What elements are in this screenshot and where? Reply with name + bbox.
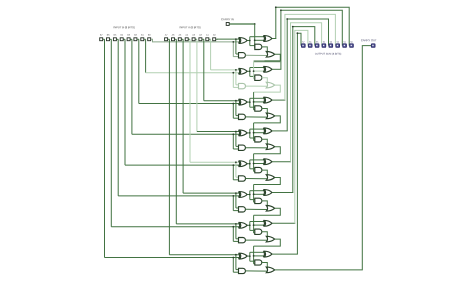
wire A7 vertical bbox=[168, 38, 170, 40]
wire A4 vertical bbox=[189, 38, 191, 40]
xor gate XOR1 cell1 bbox=[240, 38, 248, 44]
wire B2 vertical bbox=[137, 38, 139, 40]
input pin A2 bbox=[199, 38, 202, 41]
wire B4 vertical bbox=[124, 38, 126, 40]
wire A4 horizontal bbox=[190, 161, 239, 163]
wire A1 horizontal bbox=[211, 69, 240, 71]
wire sum S7 nest bbox=[272, 253, 298, 255]
wire AND2-OR cell7 bbox=[246, 239, 268, 241]
input pin B6 bbox=[107, 38, 110, 41]
wire A6 horizontal bbox=[176, 223, 239, 225]
wire XOR1 fanout cell4 bbox=[248, 132, 250, 134]
wire carry cell7-cell8 bbox=[254, 239, 281, 246]
xor gate XOR1 cell4 bbox=[240, 130, 248, 136]
wire B2 horizontal bbox=[139, 103, 239, 105]
wire AND2-OR cell4 bbox=[246, 147, 268, 149]
xor gate XOR2 cell5 bbox=[264, 159, 272, 165]
input pin B7 bbox=[100, 38, 103, 41]
wire AND1-OR cell2 bbox=[262, 78, 268, 84]
wire A tap cell6 bbox=[235, 193, 237, 208]
and gate AND1 cell3 bbox=[255, 106, 262, 111]
wire B5 vertical bbox=[117, 38, 119, 40]
xor gate XOR1 cell3 bbox=[240, 99, 248, 105]
input pin A7 bbox=[165, 38, 168, 41]
or gate OR1 cell4 bbox=[266, 144, 274, 150]
wire carry cell3-cell4 bbox=[254, 116, 281, 123]
wire B tap cell8 bbox=[232, 258, 234, 273]
wire sum S1 nest bbox=[272, 68, 281, 70]
xor gate XOR1 cell8 bbox=[240, 253, 248, 259]
wire A2 horizontal bbox=[204, 100, 239, 102]
xor gate XOR2 cell8 bbox=[264, 251, 272, 257]
wire AND2-OR cell8 bbox=[246, 270, 268, 272]
output pin S3 bbox=[329, 44, 333, 47]
wire sum S6 nest bbox=[272, 222, 295, 224]
and gate AND1 cell7 bbox=[255, 229, 262, 234]
label carry in bbox=[221, 18, 233, 20]
wire A3 horizontal bbox=[197, 131, 239, 133]
wire XOR1 fanout cell8 bbox=[248, 255, 250, 257]
wire AND1-OR cell6 bbox=[262, 201, 268, 207]
wire sum S5 nest bbox=[272, 192, 293, 194]
wire A5 horizontal bbox=[183, 192, 239, 194]
and gate AND1 cell2 bbox=[255, 75, 262, 80]
and gate AND2 cell8 bbox=[239, 268, 246, 273]
wire carry-in cell5 bbox=[253, 154, 255, 172]
wire A tap cell7 bbox=[235, 224, 237, 239]
input pin B3 bbox=[127, 38, 130, 41]
input pin B0 bbox=[148, 38, 151, 41]
wire carry-in cell4 bbox=[253, 123, 255, 141]
wire carry cell5-cell6 bbox=[254, 178, 281, 185]
wire carry cell4-cell5 bbox=[254, 147, 281, 154]
wire B tap cell6 bbox=[232, 196, 234, 211]
wire A2 vertical bbox=[202, 38, 204, 40]
and gate AND1 cell8 bbox=[255, 260, 262, 265]
wire B tap cell4 bbox=[232, 134, 234, 149]
output pin S7 bbox=[302, 44, 306, 47]
wire A tap cell5 bbox=[235, 162, 237, 177]
wire carry cell6-cell7 bbox=[254, 208, 281, 215]
wire carry-in cell8 bbox=[253, 246, 255, 264]
or gate OR1 cell2 bbox=[266, 82, 274, 88]
input pin B1 bbox=[141, 38, 144, 41]
wire A tap cell2 bbox=[235, 70, 237, 85]
input pin A6 bbox=[172, 38, 175, 41]
wire B tap cell1 bbox=[232, 42, 234, 57]
wire CIN bbox=[229, 23, 254, 25]
wire sum S4 nest bbox=[272, 161, 291, 163]
wire B5 horizontal bbox=[118, 195, 239, 197]
wire B7 horizontal bbox=[105, 257, 240, 259]
and gate AND2 cell3 bbox=[239, 114, 246, 119]
wire carry-in cell1 bbox=[254, 24, 256, 48]
xor gate XOR2 cell4 bbox=[264, 128, 272, 134]
label output sum bbox=[315, 53, 341, 55]
wire XOR1 fanout cell2 bbox=[248, 70, 250, 72]
wire AND1-OR cell1 bbox=[262, 47, 268, 53]
wire XOR1 fanout cell6 bbox=[248, 194, 250, 196]
wire AND1-OR cell3 bbox=[262, 109, 268, 115]
wire B0 to cell1 bbox=[151, 39, 239, 42]
xor gate XOR1 cell2 bbox=[240, 68, 248, 74]
or gate OR1 cell3 bbox=[266, 113, 274, 119]
xor gate XOR1 cell7 bbox=[240, 222, 248, 228]
output pin S0 bbox=[350, 44, 354, 47]
or gate OR1 cell8 bbox=[266, 267, 274, 273]
wire carry cell1-cell2 bbox=[275, 54, 281, 61]
wire carry-in cell6 bbox=[253, 185, 255, 203]
label input group B bbox=[114, 26, 135, 29]
output pin S6 bbox=[308, 44, 312, 47]
and gate AND1 cell4 bbox=[255, 137, 262, 142]
wire AND2-OR cell3 bbox=[246, 116, 268, 118]
output pin S1 bbox=[343, 44, 347, 47]
wire B1 vertical bbox=[144, 38, 146, 40]
wire AND1-OR cell4 bbox=[262, 139, 268, 145]
wire B3 vertical bbox=[130, 38, 132, 40]
wire carry out bbox=[275, 46, 371, 270]
output pin S2 bbox=[336, 44, 340, 47]
wire AND2-OR cell5 bbox=[246, 178, 268, 180]
wire sum S0 nest bbox=[272, 38, 276, 40]
wire B tap cell3 bbox=[232, 104, 234, 119]
and gate AND2 cell1 bbox=[239, 53, 246, 58]
wire A tap cell3 bbox=[235, 101, 237, 116]
input pin A4 bbox=[185, 38, 188, 41]
and gate AND2 cell5 bbox=[239, 176, 246, 181]
wire carry-in cell2 bbox=[253, 61, 255, 79]
wire A3 vertical bbox=[195, 38, 197, 40]
wire A6 vertical bbox=[175, 38, 177, 40]
input pin A3 bbox=[192, 38, 195, 41]
wire B tap cell5 bbox=[232, 165, 234, 180]
and gate AND2 cell4 bbox=[239, 145, 246, 150]
output pin S4 bbox=[322, 44, 326, 47]
input pin CIN bbox=[226, 23, 229, 26]
and gate AND1 cell1 bbox=[255, 44, 262, 49]
wire AND1-OR cell7 bbox=[262, 232, 268, 238]
wire B tap cell2 bbox=[232, 73, 234, 88]
wire B7 vertical bbox=[103, 38, 105, 40]
wire B4 horizontal bbox=[125, 164, 239, 166]
and gate AND2 cell6 bbox=[239, 207, 246, 212]
wire XOR1 fanout cell1 bbox=[248, 40, 250, 42]
or gate OR1 cell5 bbox=[266, 175, 274, 181]
wire XOR1 fanout cell5 bbox=[248, 163, 250, 165]
wire B6 vertical bbox=[110, 38, 112, 40]
xor gate XOR1 cell5 bbox=[240, 161, 248, 167]
xor gate XOR1 cell6 bbox=[240, 192, 248, 198]
xor gate XOR2 cell6 bbox=[264, 190, 272, 196]
wire A tap cell1 bbox=[235, 39, 237, 54]
wire B6 horizontal bbox=[111, 226, 239, 228]
wire carry-in cell7 bbox=[253, 215, 255, 233]
wire AND2-OR cell6 bbox=[246, 208, 268, 210]
output pin COUT bbox=[371, 44, 375, 47]
label carry out bbox=[361, 39, 377, 41]
wire A tap cell8 bbox=[235, 255, 237, 270]
xor gate XOR2 cell7 bbox=[264, 220, 272, 226]
or gate OR1 cell7 bbox=[266, 236, 274, 242]
wire sum S3 nest bbox=[272, 130, 288, 132]
wire A7 horizontal bbox=[169, 254, 239, 256]
input pin B4 bbox=[120, 38, 123, 41]
wire AND1-OR cell8 bbox=[262, 263, 268, 269]
wire A tap cell4 bbox=[235, 132, 237, 147]
label input group A bbox=[180, 26, 201, 29]
wire A0 to cell1 bbox=[216, 38, 239, 40]
output pin S5 bbox=[315, 44, 319, 47]
wire A1 vertical bbox=[209, 38, 211, 40]
input pin A1 bbox=[206, 38, 209, 41]
wire XOR1 fanout cell7 bbox=[248, 224, 250, 226]
and gate AND2 cell2 bbox=[239, 83, 246, 88]
wire AND1-OR cell5 bbox=[262, 170, 268, 176]
wire B tap cell7 bbox=[232, 227, 234, 242]
wire carry cell2-cell3 bbox=[254, 85, 281, 92]
wire AND2-OR cell1 bbox=[246, 54, 268, 56]
wire XOR1 fanout cell3 bbox=[248, 101, 250, 103]
input pin A0 bbox=[213, 38, 216, 41]
wire A5 vertical bbox=[182, 38, 184, 40]
xor gate XOR2 cell1 bbox=[264, 36, 272, 42]
wire B3 horizontal bbox=[132, 133, 239, 135]
or gate OR1 cell6 bbox=[266, 206, 274, 212]
xor gate XOR2 cell2 bbox=[264, 66, 272, 72]
and gate AND2 cell7 bbox=[239, 238, 246, 243]
input pin B5 bbox=[113, 38, 116, 41]
xor gate XOR2 cell3 bbox=[264, 97, 272, 103]
and gate AND1 cell5 bbox=[255, 167, 262, 172]
wire B1 horizontal bbox=[146, 72, 240, 74]
wire AND2-OR cell2 bbox=[246, 85, 268, 87]
input pin B2 bbox=[134, 38, 137, 41]
wire sum S2 nest bbox=[272, 99, 285, 101]
input pin A5 bbox=[178, 38, 181, 41]
or gate OR1 cell1 bbox=[266, 52, 274, 58]
and gate AND1 cell6 bbox=[255, 198, 262, 203]
wire carry-in cell3 bbox=[253, 92, 255, 110]
